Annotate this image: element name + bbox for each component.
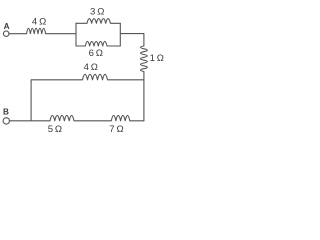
svg-text:A: A [4,22,10,31]
svg-text:4 Ω: 4 Ω [32,16,46,27]
svg-text:B: B [3,108,9,117]
svg-text:7 Ω: 7 Ω [109,124,123,135]
svg-text:5 Ω: 5 Ω [48,124,62,135]
svg-text:3 Ω: 3 Ω [90,6,104,17]
svg-text:6 Ω: 6 Ω [89,48,103,59]
svg-text:4 Ω: 4 Ω [84,62,98,73]
svg-text:1 Ω: 1 Ω [150,53,164,64]
